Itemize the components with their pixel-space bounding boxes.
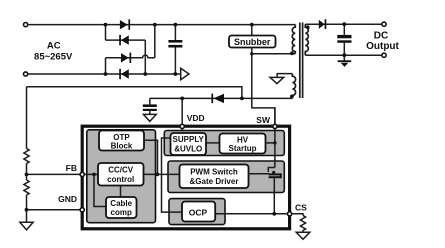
junction dot output cap top: [342, 22, 346, 26]
svg-text:Output: Output: [366, 41, 399, 52]
wire bottom AC rail: [28, 73, 181, 75]
wire bridge left bus upper: [105, 25, 107, 40]
junction dot divider sense: [240, 97, 244, 101]
svg-text:PWM Switch: PWM Switch: [190, 168, 238, 177]
ground divider (hollow triangle): [20, 222, 33, 230]
transistor Q1 power MOSFET: [249, 168, 281, 179]
wire supply to HV startup: [206, 142, 220, 144]
IC U1 outline: [82, 126, 289, 229]
resistor R1: [24, 149, 29, 164]
wire OTP to FB net: [144, 140, 158, 174]
svg-text:VDD: VDD: [187, 113, 205, 123]
svg-text:GND: GND: [58, 194, 77, 204]
gray region control (left): [87, 130, 156, 223]
block HV startup: [220, 134, 266, 154]
junction dot snubber top: [250, 23, 254, 27]
transformer T1 primary winding: [292, 25, 295, 54]
capacitor C3 output: [337, 24, 351, 55]
svg-text:FB: FB: [66, 163, 77, 173]
svg-text:HV: HV: [237, 135, 249, 144]
wire diode D3 row with hop over crossing: [106, 55, 155, 58]
wire secondary bottom: [305, 54, 381, 56]
pin GND: [58, 194, 84, 212]
wire OCP to CS pin: [215, 213, 289, 215]
wire GND tap: [27, 209, 81, 211]
svg-text:comp: comp: [111, 208, 132, 217]
wire CC/CV to cable comp: [120, 186, 122, 198]
junction dot HV/SW: [273, 141, 276, 144]
svg-text:control: control: [107, 175, 134, 184]
block CC/CV control: [98, 163, 144, 186]
pin SW: [256, 115, 277, 128]
junction dot source/CS: [272, 212, 276, 216]
node primary return hollow arrow: [181, 68, 189, 79]
wire VDD pin vertical: [181, 98, 183, 133]
block OTP: [99, 131, 144, 151]
wire supply to OCP: [162, 138, 183, 212]
capacitor C2 VDD: [143, 98, 157, 114]
wire snubber to SW: [252, 48, 275, 125]
label AC 85~265V: [34, 40, 73, 62]
pin FB: [66, 163, 85, 176]
transformer T1 secondary winding: [305, 24, 308, 55]
wire snubber top: [251, 25, 253, 36]
label DC Output: [366, 31, 399, 52]
pin CS: [288, 203, 308, 216]
wire MOSFET source to CS: [273, 178, 275, 214]
junction dot GND tap: [25, 208, 29, 212]
diode D5 VDD rectifier: [211, 94, 224, 104]
wire bridge plus bus vertical: [154, 25, 156, 58]
wire top rail (rectified + rail): [28, 24, 295, 26]
gray region ocp: [169, 199, 225, 225]
junction dot FB tap: [25, 173, 29, 177]
wire SW to MOSFET drain: [274, 108, 276, 168]
gray region pwm/gate: [168, 161, 284, 193]
diode D4 bridge bottom: [119, 69, 129, 79]
AC input terminal top: [24, 23, 28, 27]
diode D6 output rectifier: [319, 19, 327, 29]
wire CS sense: [292, 214, 303, 216]
svg-text:OCP: OCP: [189, 208, 208, 218]
diode D3 bridge: [121, 53, 131, 63]
AC input terminal bottom: [24, 72, 28, 76]
ground CS resistor (hollow triangle): [296, 232, 310, 239]
svg-text:CS: CS: [295, 203, 307, 213]
junction dot VDD branch: [180, 97, 184, 101]
wire bridge minus bus vertical: [144, 40, 146, 74]
wire VDD/aux rail: [150, 97, 293, 99]
ground VDD cap (hollow triangle): [143, 114, 156, 121]
transformer T1 auxiliary winding: [292, 74, 295, 99]
wire CC/CV to PWM: [144, 173, 180, 175]
junction dots bridge: [104, 23, 178, 76]
block OCP: [182, 202, 215, 222]
svg-text:AC: AC: [47, 40, 61, 51]
junction dot cable tap: [92, 173, 96, 177]
wire HV startup to SW net: [266, 142, 275, 144]
svg-text:SW: SW: [256, 115, 271, 125]
transformer T1 secondary polarity dot: [306, 25, 310, 29]
block SUPPLY &UVLO: [171, 133, 207, 155]
wire FB to CC/CV: [82, 173, 98, 175]
DC output terminal bottom: [382, 53, 386, 57]
resistor R3 current sense: [300, 216, 305, 233]
snubber box: [229, 36, 276, 48]
svg-text:85~265V: 85~265V: [34, 51, 73, 62]
resistor R2: [24, 180, 29, 195]
junction dot output cap bottom: [342, 53, 346, 57]
wire secondary top: [305, 23, 381, 25]
transformer T1 aux polarity dot: [290, 95, 294, 99]
ground aux (hollow triangle): [270, 77, 284, 83]
transformer T1 primary polarity dot: [290, 51, 294, 55]
DC output terminal top: [382, 22, 386, 26]
ground secondary output: [338, 55, 352, 67]
wire left divider vertical: [26, 87, 28, 223]
svg-text:Snubber: Snubber: [234, 37, 271, 47]
block PWM switch gate driver: [180, 165, 249, 189]
transformer T1 core: [300, 23, 303, 99]
wire primary bottom lead: [252, 53, 295, 55]
svg-text:Startup: Startup: [229, 144, 257, 153]
svg-text:&Gate Driver: &Gate Driver: [190, 177, 239, 186]
wire cable comp tap: [94, 174, 106, 206]
diode D2 bridge: [119, 35, 129, 45]
svg-text:Block: Block: [111, 142, 133, 151]
svg-text:&UVLO: &UVLO: [174, 145, 202, 154]
wire aux top to ground: [277, 74, 292, 78]
wire diode D2 row: [106, 39, 146, 41]
svg-text:CC/CV: CC/CV: [108, 166, 134, 175]
wire aux sense feed (horizontal): [27, 87, 242, 99]
capacitor C1 input bulk: [168, 25, 182, 74]
junction dot OTP/FB: [156, 173, 160, 177]
block cable comp: [106, 197, 137, 218]
pin VDD: [180, 113, 205, 128]
gray region supply/startup: [164, 131, 284, 156]
wire FB tap: [27, 173, 81, 175]
wire bridge left bus lower: [105, 58, 107, 74]
svg-text:SUPPLY: SUPPLY: [173, 135, 205, 144]
svg-text:Cable: Cable: [110, 199, 132, 208]
diode D1 bridge top: [120, 19, 130, 29]
junction dot primary bottom T: [250, 52, 253, 55]
